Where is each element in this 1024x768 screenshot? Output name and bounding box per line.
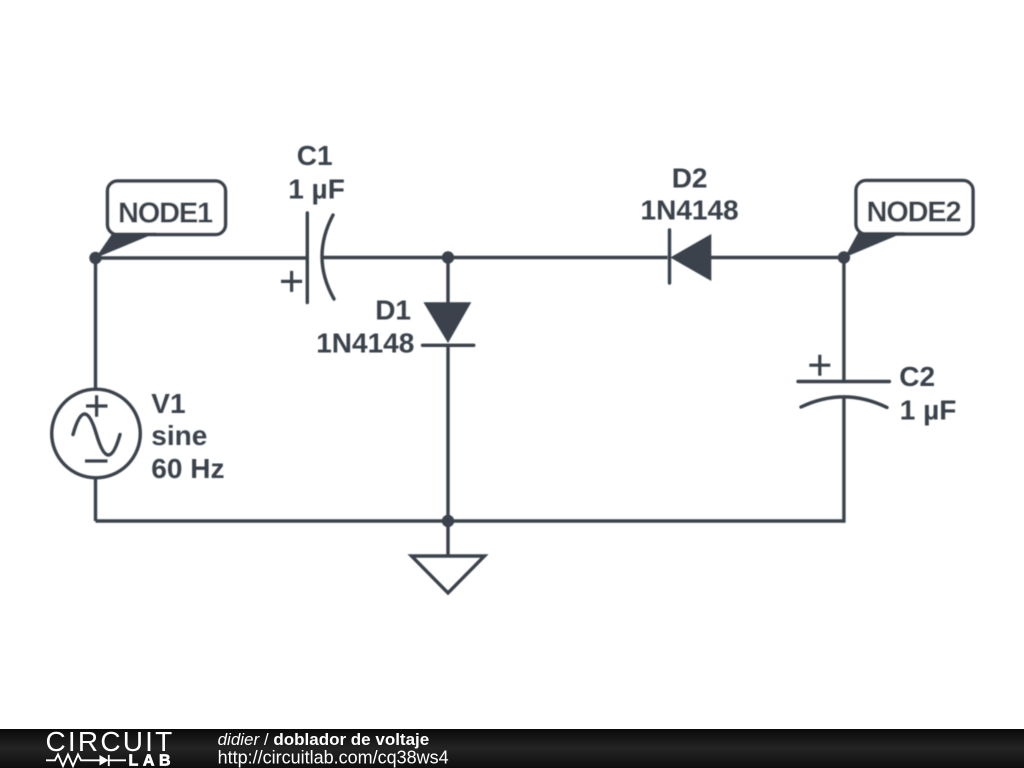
svg-text:sine: sine — [151, 420, 207, 451]
svg-text:1 µF: 1 µF — [288, 174, 345, 205]
svg-text:1N4148: 1N4148 — [316, 328, 414, 359]
svg-text:http://circuitlab.com/cq38ws4: http://circuitlab.com/cq38ws4 — [218, 747, 449, 767]
svg-text:C2: C2 — [899, 361, 935, 392]
svg-text:C1: C1 — [297, 140, 333, 171]
svg-text:1 µF: 1 µF — [900, 394, 957, 425]
svg-text:60 Hz: 60 Hz — [151, 453, 224, 484]
svg-text:didier / doblador de voltaje: didier / doblador de voltaje — [218, 730, 430, 749]
svg-text:V1: V1 — [151, 388, 185, 419]
svg-text:1N4148: 1N4148 — [641, 195, 739, 226]
svg-text:D2: D2 — [672, 162, 708, 193]
svg-text:D1: D1 — [375, 294, 411, 325]
svg-text:LAB: LAB — [129, 753, 176, 768]
svg-text:NODE2: NODE2 — [867, 197, 961, 229]
svg-text:NODE1: NODE1 — [118, 198, 213, 230]
